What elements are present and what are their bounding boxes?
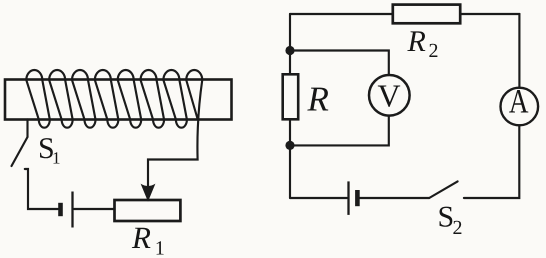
- label S2 subscript 2: [453, 221, 461, 234]
- wire coil right lead to slider: [148, 80, 202, 189]
- label S1 letter S: [40, 138, 53, 158]
- battery B1 short plate: [58, 203, 63, 216]
- wire left branch vertical: [289, 14, 291, 198]
- switch S2 blade: [429, 181, 457, 198]
- wire right vertical to ammeter: [518, 14, 520, 88]
- resistor R: [283, 74, 299, 119]
- label R2 subscript 2: [429, 44, 437, 57]
- wire voltmeter branch top: [290, 51, 389, 76]
- coil turn 6: [141, 70, 165, 128]
- resistor R2: [393, 5, 460, 24]
- label R2 letter R: [407, 31, 425, 51]
- label S2 letter S: [440, 207, 453, 227]
- coil turn 2: [49, 70, 73, 128]
- coil turn 3: [72, 70, 96, 128]
- coil turn 5: [118, 70, 142, 128]
- wire coil left lead: [26, 120, 28, 138]
- coil turn 7: [163, 70, 187, 128]
- node junction bottom: [285, 141, 294, 150]
- ammeter A1: [501, 88, 539, 126]
- voltmeter V1: [369, 75, 410, 116]
- wire battery to S2: [358, 197, 429, 199]
- battery B2 long plate: [347, 181, 349, 215]
- meter letter A: [509, 90, 528, 112]
- wire right-circuit top: [290, 13, 520, 15]
- wire voltmeter branch bottom: [290, 116, 389, 146]
- wire S1 to battery: [25, 169, 58, 209]
- coil turn 1: [26, 70, 50, 128]
- battery B2 short plate: [355, 190, 360, 206]
- coil turn 8: [186, 70, 202, 120]
- label R1 subscript 1: [157, 241, 164, 254]
- rheostat slider arrowhead: [142, 185, 154, 200]
- wire bottom left: [290, 197, 347, 199]
- label R letter: [307, 88, 328, 111]
- wire ammeter to bottom corner: [464, 125, 519, 198]
- switch S1 blade: [12, 137, 28, 166]
- label S1 subscript 1: [53, 152, 59, 163]
- rheostat R1: [115, 200, 181, 221]
- coil turn 4: [95, 70, 119, 128]
- wire battery to R1: [74, 208, 114, 210]
- battery B1 long plate: [71, 192, 73, 228]
- node junction top: [285, 46, 294, 55]
- meter letter V: [378, 86, 400, 107]
- solenoid core L1: [5, 80, 232, 120]
- label R1 letter R: [132, 228, 151, 248]
